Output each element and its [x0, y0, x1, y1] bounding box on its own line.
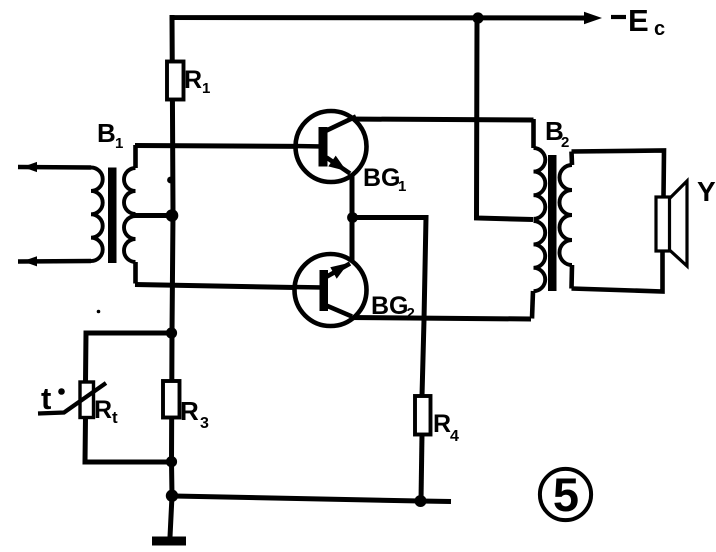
svg-text:E: E	[628, 3, 649, 38]
svg-text:R: R	[433, 410, 451, 438]
svg-text:BG: BG	[371, 292, 409, 320]
svg-text:3: 3	[200, 415, 209, 432]
svg-text:5: 5	[553, 468, 579, 521]
svg-text:R: R	[180, 396, 199, 426]
svg-text:4: 4	[450, 428, 459, 445]
svg-text:t: t	[112, 408, 118, 427]
svg-text:B: B	[97, 118, 116, 148]
svg-text:c: c	[654, 18, 665, 40]
svg-text:2: 2	[407, 305, 415, 322]
svg-text:1: 1	[202, 80, 210, 97]
svg-text:1: 1	[398, 178, 406, 195]
svg-text:R: R	[94, 396, 112, 424]
svg-text:2: 2	[561, 134, 569, 151]
svg-text:BG: BG	[363, 164, 401, 192]
svg-text:1: 1	[115, 135, 123, 152]
svg-text:R: R	[184, 66, 202, 94]
svg-text:Y: Y	[697, 176, 716, 207]
svg-text:t: t	[41, 381, 51, 416]
